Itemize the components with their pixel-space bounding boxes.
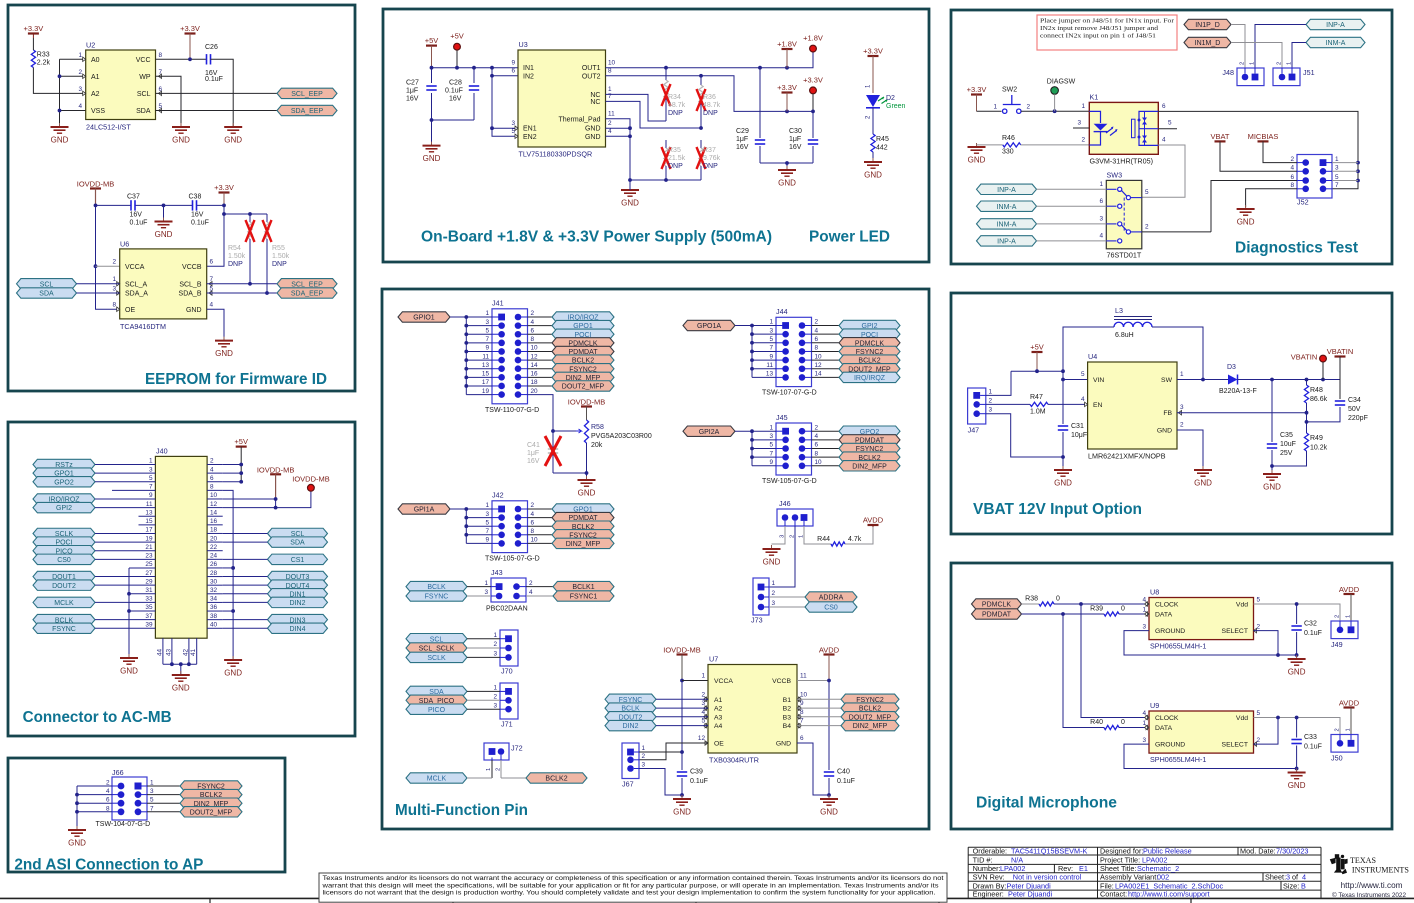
junction U8 gnd node (1295, 653, 1299, 657)
wire pin8 GND bus (223, 490, 233, 660)
net label FSYNC2 (J45) (839, 443, 900, 453)
wire J41 bus to pin17 (466, 385, 492, 387)
wire J44 bus to pin5 (752, 342, 776, 344)
junction thermal gnd (628, 178, 632, 182)
svg-text:A2: A2 (714, 706, 723, 713)
svg-text:SW2: SW2 (1002, 87, 1017, 94)
junction +5V tp (455, 66, 459, 70)
svg-text:9: 9 (769, 459, 773, 466)
wire AVDD vertical a (828, 681, 830, 771)
svg-text:CLOCK: CLOCK (1155, 715, 1179, 722)
svg-text:2: 2 (815, 319, 819, 326)
junction J44 bus row2 (750, 332, 754, 336)
resistor R39 0 (1090, 606, 1125, 617)
svg-text:BCLK2: BCLK2 (545, 776, 567, 783)
svg-text:12: 12 (531, 353, 539, 360)
svg-text:SELECT: SELECT (1222, 628, 1248, 635)
wire MCLK to J72 (467, 777, 492, 779)
title Connector to AC-MB (23, 709, 172, 726)
net label SDA (J40 right) (268, 537, 328, 547)
wire J41 pin12 to BCLK2 (528, 359, 553, 361)
net label GPI1A (398, 504, 450, 514)
svg-text:Place jumper on J48/51 for IN1: Place jumper on J48/51 for IN1x input. F… (1040, 18, 1174, 25)
wire K1 pin4 to SW3 pin5 (1142, 145, 1185, 197)
svg-text:7: 7 (150, 805, 154, 812)
capacitor C32 (1291, 604, 1322, 655)
wire IOVDD-MB rail b (135, 204, 193, 206)
svg-text:SDA_A: SDA_A (125, 291, 148, 298)
wire +3.3V tp stem (812, 94, 814, 112)
ground (C35) (1263, 470, 1281, 492)
svg-text:R34: R34 (668, 94, 681, 101)
net label FSYNC (J43) (406, 591, 467, 601)
junction J45 bus row2 (750, 438, 754, 442)
svg-text:2: 2 (608, 120, 612, 127)
net label FSYNC (U7) (605, 694, 656, 704)
label C27 values (406, 80, 419, 103)
svg-text:GND: GND (1054, 479, 1072, 488)
svg-text:11: 11 (766, 362, 773, 369)
wire J66 pin4 to GND bus (77, 794, 112, 796)
net label GPIO1 (398, 312, 450, 322)
svg-text:GPO1A: GPO1A (697, 323, 721, 330)
svg-text:11: 11 (482, 353, 489, 360)
svg-text:SCL_B: SCL_B (179, 281, 202, 288)
svg-text:U2: U2 (86, 41, 95, 50)
svg-text:GND: GND (224, 669, 242, 678)
wire +5V down (240, 447, 242, 482)
wire U9 GROUND loop (1124, 744, 1297, 768)
net label BCLK2 (J44) (839, 355, 900, 365)
connector J71 box (500, 683, 518, 728)
resistor R44 4.7k (817, 536, 862, 546)
wire J45 pin2 to GPO2 (812, 430, 840, 432)
svg-text:13: 13 (482, 362, 490, 369)
label C38 values (189, 194, 209, 227)
svg-text:N/A: N/A (1011, 855, 1023, 864)
svg-text:NC: NC (590, 92, 600, 99)
net label PDMDAT (J41) (552, 346, 614, 356)
svg-text:16V: 16V (406, 96, 419, 103)
capacitor C40 (824, 769, 855, 786)
junction pin43 (170, 662, 174, 666)
J43 pins (484, 580, 533, 600)
svg-text:ADDRA: ADDRA (819, 595, 844, 602)
svg-text:TSW-104-07-G-D: TSW-104-07-G-D (96, 821, 151, 828)
wire IN1P_D to J48 (1231, 25, 1245, 69)
ground (C26) (224, 123, 242, 145)
svg-text:VBATIN: VBATIN (1327, 347, 1354, 356)
svg-text:3: 3 (493, 651, 497, 658)
svg-text:GPI1A: GPI1A (414, 507, 435, 514)
junction R35 bottom (664, 178, 668, 182)
svg-text:10: 10 (815, 353, 823, 360)
wire J45 left bus (751, 431, 753, 466)
TI copyright (1332, 892, 1407, 899)
J42 pins (485, 502, 538, 547)
ground (U3) (621, 186, 639, 208)
svg-text:MCLK: MCLK (427, 776, 447, 783)
svg-text:4: 4 (210, 466, 214, 473)
svg-text:warrant that this design will: warrant that this design will meet the s… (321, 882, 938, 889)
svg-text:16V: 16V (527, 458, 540, 465)
net label DOUT4 (J40 right) (268, 580, 328, 590)
power +3.3V (R33) (23, 24, 43, 38)
svg-text:U4: U4 (1088, 352, 1097, 361)
svg-text:DATA: DATA (1155, 725, 1173, 732)
svg-text:15: 15 (482, 371, 490, 378)
wire U2 WP down (156, 76, 182, 127)
title row 3 (973, 864, 1180, 873)
svg-text:4: 4 (1290, 165, 1294, 172)
junction gnd bus (75, 793, 79, 797)
net label BCLK2 (J45) (839, 452, 900, 462)
net label DIN4 (J40 right) (268, 623, 328, 633)
svg-text:31: 31 (145, 587, 153, 594)
svg-text:GND: GND (763, 558, 781, 567)
net label GPO2 (J40 left) (33, 477, 95, 487)
junction C41 top (551, 429, 555, 433)
junction C29 branch (758, 66, 762, 70)
svg-text:43: 43 (165, 648, 172, 656)
wire pin10 to IOVDD (223, 498, 276, 500)
wire SCLK to J70 (467, 656, 500, 658)
wire IOVDD vertical a (681, 681, 683, 771)
net label INM-A (SW3 pin) (977, 219, 1037, 229)
svg-text:10: 10 (815, 459, 823, 466)
svg-text:LPA002: LPA002 (1142, 855, 1167, 864)
svg-text:GND: GND (776, 741, 791, 748)
svg-text:16V: 16V (736, 144, 749, 151)
svg-text:7: 7 (769, 450, 773, 457)
net label SCL_EEP (top) (277, 88, 337, 98)
wire J66 pin8 to GND bus (77, 811, 112, 813)
svg-text:442: 442 (876, 145, 888, 152)
svg-text:5: 5 (150, 797, 154, 804)
svg-text:IOVDD-MB: IOVDD-MB (257, 465, 295, 474)
wire J44 bus to pin7 (752, 350, 776, 352)
wire J42 bus to pin3 (466, 517, 492, 519)
net label BCLK2 (U7) (841, 703, 899, 713)
svg-text:J44: J44 (776, 307, 788, 316)
net label ADDRA (805, 592, 857, 602)
wire J42 bus to pin7 (466, 534, 492, 536)
ground (R58) (578, 476, 596, 498)
net label SDA_EEP (bottom) (277, 288, 337, 298)
net label IN1P_D (1184, 19, 1231, 29)
svg-text:Assembly Variant:: Assembly Variant: (1100, 872, 1158, 881)
title row 2 (973, 855, 1168, 864)
junction J45 bus row3 (750, 447, 754, 451)
junction +5V pin2 (239, 463, 243, 467)
wire J42 left bus (465, 509, 467, 543)
wire J72 pin1 down (491, 760, 493, 778)
resistor R54 (DNP) (228, 214, 255, 284)
svg-text:U3: U3 (519, 40, 528, 49)
svg-text:AVDD: AVDD (1339, 699, 1360, 708)
wire C31 vertical b (1062, 432, 1064, 457)
svg-text:0.1uF: 0.1uF (130, 220, 148, 227)
svg-text:DNP: DNP (703, 163, 718, 170)
wire R49 to GND row (1272, 451, 1307, 466)
junction +5V pin6 (239, 480, 243, 484)
junction A1 bus (58, 74, 62, 78)
svg-text:J72: J72 (511, 744, 523, 753)
junction +3.3V U6 (222, 204, 226, 208)
wire J52 right pin (1332, 180, 1358, 182)
wire IOVDD-MB rail c (197, 204, 225, 206)
svg-text:37: 37 (145, 613, 153, 620)
svg-text:2: 2 (493, 641, 497, 648)
junction C35 gnd (1270, 464, 1274, 468)
net label SDA (17, 288, 77, 298)
wire J41 pin6 to POCI (528, 333, 553, 335)
ground (J52) (1237, 205, 1255, 227)
label C29 values (736, 128, 749, 151)
wire J73 pin2 to ADDRA (769, 596, 805, 598)
net label SDA_EEP (top) (277, 105, 337, 115)
svg-text:DIN2_MFP: DIN2_MFP (566, 541, 601, 548)
svg-text:3: 3 (1286, 872, 1290, 881)
net label RSTz (J40 left) (33, 459, 95, 469)
junction FB (1305, 411, 1309, 415)
net label FSYNC2 (J66) (180, 781, 242, 791)
svg-text:DIN2: DIN2 (290, 600, 306, 607)
junction gnd bus (75, 801, 79, 805)
net label GPI2 (J40 left) (33, 502, 95, 512)
svg-text:PICO: PICO (428, 707, 446, 714)
svg-text:14: 14 (531, 362, 539, 369)
svg-text:6: 6 (210, 259, 214, 266)
wire bus to U2 VSS (60, 110, 86, 112)
svg-text:GND: GND (1157, 428, 1172, 435)
label C37 values (127, 194, 147, 227)
wire R58 to GND (586, 443, 588, 477)
wire R40 to U9 DATA (1119, 727, 1149, 729)
connector J40 box (155, 446, 207, 638)
wire J40 to DOUT4 (223, 584, 268, 586)
junction R48 top (1305, 378, 1309, 382)
wire to U7 VCCA (682, 680, 708, 682)
connector J72 box (484, 743, 523, 760)
svg-text:NC: NC (590, 99, 600, 106)
svg-text:J66: J66 (112, 768, 124, 777)
junction pin36 (231, 609, 235, 613)
svg-text:R54: R54 (228, 245, 241, 252)
svg-text:8: 8 (159, 52, 163, 59)
TI logo (1330, 854, 1348, 874)
svg-text:OUT1: OUT1 (582, 65, 601, 72)
junction pin26 (231, 566, 235, 570)
note box: jumper instructions (1037, 15, 1177, 50)
connector J52 (1290, 155, 1339, 207)
svg-text:38: 38 (210, 613, 218, 620)
J72 pins (486, 748, 504, 771)
svg-text:2: 2 (1257, 623, 1261, 630)
svg-text:DOUT2_MFP: DOUT2_MFP (562, 384, 605, 391)
svg-text:1μF: 1μF (736, 136, 748, 143)
svg-text:25: 25 (145, 561, 153, 568)
svg-text:GND: GND (51, 136, 69, 145)
svg-text:1: 1 (608, 86, 612, 93)
svg-text:VBAT: VBAT (1210, 132, 1229, 141)
net label DOUT2_MFP (J66) (180, 807, 242, 817)
svg-text:AVDD: AVDD (1339, 585, 1360, 594)
svg-text:Sheet:: Sheet: (1265, 872, 1286, 881)
net label PICO (J40 left) (33, 546, 95, 556)
wire pin12 to IOVDD node (223, 491, 311, 507)
svg-text:PDMDAT: PDMDAT (982, 612, 1012, 619)
svg-text:C35: C35 (1280, 432, 1293, 439)
svg-text:76STD01T: 76STD01T (1107, 251, 1142, 260)
label C26 values (205, 44, 223, 83)
svg-text:5: 5 (485, 519, 489, 526)
svg-text:2: 2 (815, 424, 819, 431)
junction C37-C38 (162, 204, 166, 208)
capacitor C35 (1267, 380, 1296, 467)
svg-text:Orderable:: Orderable: (973, 847, 1007, 856)
connector J70 box (500, 630, 518, 675)
capacitor C39 (677, 769, 708, 786)
svg-text:13: 13 (766, 371, 774, 378)
ground (J46) (763, 545, 781, 567)
svg-text:GND: GND (172, 136, 190, 145)
wire J43 to FSYNC1 (526, 595, 553, 597)
svg-text:J70: J70 (501, 666, 513, 675)
svg-text:C39: C39 (690, 769, 703, 776)
wire U7 to BCLK2 (797, 707, 841, 709)
capacitor C29 (755, 68, 765, 163)
wire J41 bus to pin19 (466, 394, 492, 396)
svg-text:GND: GND (778, 179, 796, 188)
net label DOUT2_MFP (J41) (552, 381, 614, 391)
junction IN2 (490, 74, 494, 78)
svg-text:AVDD: AVDD (863, 515, 884, 524)
power +1.8V (bar) (777, 39, 797, 67)
power MICBIAS (1248, 132, 1279, 142)
power +3.3V (U6) (214, 183, 234, 206)
junction J67 IOVDD (680, 750, 684, 754)
svg-text:TEXAS: TEXAS (1350, 856, 1376, 865)
svg-text:32: 32 (210, 587, 218, 594)
svg-text:R40: R40 (1090, 719, 1103, 726)
wire SW2 to K1 pin1 (1021, 110, 1089, 112)
junction C31 gnd (1061, 455, 1065, 459)
test point DIAGSW (green) (1047, 79, 1076, 112)
wire J73 pin3 to CS0 (769, 606, 805, 608)
wire J52 pin6 to SW3 pin2 (1211, 181, 1297, 232)
wire U4 GND pin (1177, 430, 1203, 470)
svg-text:1: 1 (1346, 728, 1352, 731)
wire SDA to J71 (467, 690, 500, 692)
net label IN1M_D (1184, 37, 1231, 47)
junction J44 bus row6 (750, 367, 754, 371)
svg-text:8: 8 (210, 484, 214, 491)
wire U7 to DOUT2_MFP (797, 716, 841, 718)
wire J45 bus to pin5 (752, 448, 776, 450)
wire U8 SELECT down to GND (1254, 631, 1279, 655)
svg-text:10uF: 10uF (1280, 441, 1296, 448)
junction J41 bus row4 (464, 341, 468, 345)
IC U7 TXB0304RUTR (698, 655, 808, 765)
svg-text:18: 18 (210, 527, 218, 534)
svg-text:FSYNC: FSYNC (52, 626, 76, 633)
junction pin31 (127, 592, 131, 596)
svg-text:+3.3V: +3.3V (214, 183, 234, 192)
net label CS0 (J40 left) (33, 554, 95, 564)
svg-text:CLOCK: CLOCK (1155, 601, 1179, 608)
net label GPO1 (J40 left) (33, 468, 95, 478)
svg-text:1μF: 1μF (527, 450, 539, 457)
junction U9 SELECT tie (1276, 716, 1280, 720)
junction J52 right 162.6 (1356, 161, 1360, 165)
svg-text:Connector to AC-MB: Connector to AC-MB (23, 709, 172, 726)
resistor R55 (DNP) (263, 214, 290, 293)
wire J41 bus to pin15 (466, 376, 492, 378)
svg-text:1: 1 (1180, 371, 1184, 378)
svg-text:U6: U6 (120, 239, 129, 248)
wire C31 vertical a (1062, 380, 1064, 425)
wire R54/R55 top rail (224, 213, 267, 215)
svg-text:5: 5 (149, 475, 153, 482)
svg-text:TSW-107-07-G-D: TSW-107-07-G-D (762, 390, 817, 397)
svg-text:SELECT: SELECT (1222, 741, 1248, 748)
svg-text:2: 2 (493, 694, 497, 701)
wire clock to U9 (1081, 604, 1149, 718)
svg-text:20: 20 (210, 535, 218, 542)
connector J43 box (486, 568, 528, 612)
svg-text:J43: J43 (491, 568, 503, 577)
svg-text:8: 8 (1290, 182, 1294, 189)
svg-text:GND: GND (186, 307, 202, 314)
wire INM-A to SW3 (1037, 205, 1107, 207)
wire GPI2A to J45 (735, 430, 776, 432)
wire DIN2 to U7 (656, 725, 708, 727)
svg-text:9: 9 (769, 353, 773, 360)
svg-text:R38: R38 (1025, 596, 1038, 603)
junction IOVDD pin12 (274, 506, 278, 510)
junction C40 gnd (827, 793, 831, 797)
svg-text:PDMCLK: PDMCLK (982, 602, 1012, 609)
svg-text:16: 16 (531, 371, 539, 378)
svg-text:C38: C38 (189, 194, 202, 201)
junction clock branch (1079, 602, 1083, 606)
IC U9 SPH0655LM4H-1 (1142, 701, 1260, 764)
wire GND row (630, 179, 701, 181)
svg-text:6: 6 (1162, 103, 1166, 110)
net label DIN2_MFP (U7) (841, 720, 899, 730)
svg-text:A0: A0 (91, 57, 100, 64)
svg-text:26: 26 (210, 561, 218, 568)
J40 bottom pins 44 43 42 41 (156, 638, 197, 664)
svg-text:D2: D2 (886, 95, 895, 102)
svg-text:2: 2 (531, 502, 535, 509)
connector J67 box (622, 743, 639, 789)
svg-text:DIN2_MFP: DIN2_MFP (852, 463, 887, 470)
net label GPI2 (J44) (839, 320, 900, 330)
svg-text:8: 8 (608, 68, 612, 75)
svg-text:1: 1 (1346, 615, 1352, 618)
power AVDD (R44) (863, 515, 884, 527)
wire U7 VCCB to AVDD (797, 680, 829, 682)
svg-text:19: 19 (482, 388, 490, 395)
ground (U4) (1194, 466, 1212, 488)
svg-text:5: 5 (1145, 189, 1149, 196)
svg-text:Not in version control: Not in version control (1013, 872, 1082, 881)
IC U8 SPH0655LM4H-1 (1142, 588, 1260, 651)
wire INP-A to SW3 (1037, 240, 1107, 242)
resistor R40 0 (1090, 719, 1125, 730)
